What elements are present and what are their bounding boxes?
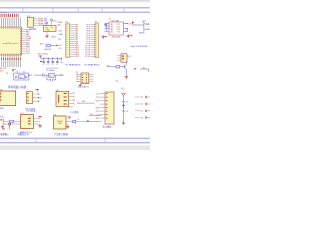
- module M1 value: [0, 108, 5, 110]
- net label top-left: [0, 12, 7, 14]
- svg-text:P1: P1: [66, 21, 68, 23]
- svg-text:78L05: 78L05: [51, 37, 58, 39]
- svg-text:24C02 AT24: 24C02 AT24: [78, 86, 90, 89]
- sheet top border line 2: [0, 11, 150, 13]
- net label U8 right: [77, 119, 79, 121]
- header J2 pins: [33, 19, 37, 26]
- header P1 designator: [66, 21, 68, 23]
- relay U5 label: [128, 56, 132, 58]
- sheet bottom border line 1: [0, 137, 150, 139]
- block U6 pins with no-connect: [69, 92, 75, 105]
- input connector bar: [3, 119, 5, 125]
- svg-text:P2: P2: [95, 21, 97, 23]
- sign text: [131, 45, 148, 48]
- wire Q1 vertical: [143, 22, 145, 32]
- svg-text:wbxxm: wbxxm: [0, 12, 7, 14]
- top border tick 3: [77, 8, 79, 13]
- top border tick 2: [52, 8, 54, 13]
- svg-text:32k: 32k: [19, 77, 22, 79]
- ground input: [1, 125, 4, 128]
- mcu U1 right pins: [20, 29, 25, 53]
- svg-text:U4 3485: U4 3485: [112, 21, 120, 23]
- svg-text:ESP: ESP: [0, 108, 5, 110]
- top border tick 4: [101, 8, 103, 13]
- driver U3 body: [109, 22, 123, 35]
- driver U3 designator: [112, 21, 120, 23]
- header P2 value: [85, 64, 101, 67]
- header P1 pin numbers: [65, 24, 68, 56]
- mcu U1 body: [0, 27, 22, 55]
- svg-text:D+: D+: [77, 119, 79, 121]
- svg-text:X1: X1: [6, 73, 8, 75]
- ground below U3 right: [127, 34, 133, 37]
- module U8 designator: [54, 115, 57, 117]
- test column wire: [123, 96, 125, 122]
- svg-text:stm8s105 weixin: stm8s105 weixin: [3, 42, 18, 45]
- header P4 value: [26, 108, 36, 110]
- mcu U1 top pins: [2, 25, 21, 27]
- svg-text:10K R9: 10K R9: [44, 49, 52, 51]
- svg-text:J: J: [28, 20, 29, 22]
- header J2 designator: [27, 16, 30, 18]
- module M1 designator: [0, 90, 4, 92]
- test point TP1: [122, 102, 129, 104]
- header P1 right net labels: [75, 24, 80, 58]
- power flag P4: [36, 89, 39, 91]
- capacitor C14: [16, 76, 17, 79]
- wire from R1: [50, 45, 57, 46]
- svg-text:C13: C13: [140, 117, 143, 119]
- block U6 value: [69, 106, 73, 108]
- svg-text:GND: GND: [95, 107, 100, 109]
- svg-text:Sign-IT-NODE42A: Sign-IT-NODE42A: [131, 45, 148, 48]
- svg-text:Y1 8MHz: Y1 8MHz: [46, 70, 54, 72]
- top border tick 5: [123, 8, 125, 13]
- mcu U1 bottom pins: [2, 55, 21, 57]
- section label power: [8, 85, 27, 89]
- svg-text:C10: C10: [140, 97, 143, 99]
- relay U5 body: [121, 54, 127, 62]
- resistor R3: [144, 28, 150, 30]
- capacitor column C10-C13: [135, 96, 150, 120]
- net label serial: [90, 114, 94, 116]
- wire stubs to mcu osc pins: [17, 71, 24, 74]
- driver U3 bottom label: [112, 36, 121, 38]
- svg-text:SM5100B: SM5100B: [112, 36, 121, 38]
- bottom gray band: [0, 146, 150, 151]
- svg-text:0.1: 0.1: [56, 64, 58, 66]
- svg-text:SCL: SCL: [59, 31, 63, 33]
- net label above test column: [121, 88, 124, 90]
- sheet background: [0, 0, 150, 150]
- svg-text:K1: K1: [147, 24, 149, 26]
- eeprom U7 pins: [77, 74, 94, 82]
- power port 3V3 above U2: [50, 19, 56, 23]
- svg-text:0.1: 0.1: [42, 64, 44, 66]
- ground below U3 left: [101, 35, 106, 38]
- crystal loop wires 32k: [14, 73, 29, 80]
- header P2 pins: [90, 25, 95, 57]
- transistor Q2 label: [116, 80, 119, 82]
- mcu U1 top inner pin numbers: [1, 28, 21, 29]
- svg-text:VCC: VCC: [96, 93, 101, 95]
- wire Q1 base: [133, 24, 144, 26]
- bottom label 3: [54, 132, 68, 136]
- header P2 body: [95, 23, 99, 57]
- power module P5 designator: [21, 113, 25, 115]
- svg-text:P2 HEADER16: P2 HEADER16: [85, 64, 101, 67]
- capacitor C6 series: [42, 74, 47, 77]
- svg-text:R10: R10: [0, 71, 3, 73]
- reset net label: [40, 44, 45, 46]
- wire serial top: [89, 115, 102, 117]
- wire net A: [77, 101, 94, 103]
- transistor Q2: [125, 62, 127, 69]
- bottom border tick 1: [35, 138, 37, 142]
- driver U3 top-left label: [109, 19, 111, 21]
- net label cap bank left: [40, 61, 42, 62]
- ground P5: [38, 124, 42, 127]
- cap bank value text: [46, 68, 59, 70]
- input red marks: [3, 128, 5, 129]
- power flag P5: [38, 117, 41, 119]
- driver U3 right pins: [123, 23, 127, 32]
- svg-text:VCC 104x4: VCC 104x4: [38, 53, 49, 55]
- svg-text:S8050: S8050: [139, 32, 144, 34]
- header P1 body: [66, 23, 70, 57]
- net label crystal left: [34, 75, 39, 77]
- top gray band: [0, 0, 150, 3]
- input wire bottom: [4, 123, 21, 125]
- eeprom U7 body: [81, 73, 89, 84]
- net flag below mcu: [12, 69, 16, 72]
- net label Q1 base: [142, 21, 146, 23]
- bottom label 1: [0, 132, 10, 136]
- svg-text:Q2: Q2: [116, 80, 119, 82]
- top border tick 1: [22, 8, 24, 13]
- resistor R1 body: [46, 44, 50, 47]
- capacitor C8 bottom: [51, 79, 53, 81]
- svg-text:0.1: 0.1: [51, 64, 53, 66]
- header J2 body: [27, 17, 33, 27]
- svg-text:PC15: PC15: [85, 56, 90, 58]
- bottom border tick 2: [104, 138, 106, 142]
- mcu U1 bottom net labels rotated: [1, 61, 21, 68]
- header P4 body: [26, 92, 32, 104]
- svg-text:DTR: DTR: [96, 111, 101, 113]
- power module P5 value: [20, 131, 33, 134]
- header P4 net label: [39, 98, 42, 100]
- mcu U1 bottom inner pin numbers: [1, 54, 21, 55]
- wire crystal left: [38, 74, 43, 76]
- regulator U2 label: [51, 37, 58, 39]
- net label below mcu: [0, 68, 6, 70]
- sheet top border line 1: [0, 7, 150, 9]
- junction test column: [122, 104, 125, 107]
- svg-text:单片机最小系统: 单片机最小系统: [8, 85, 27, 89]
- svg-text:RST: RST: [40, 44, 45, 46]
- power port flag: [8, 123, 10, 129]
- header P6 value: [103, 124, 113, 128]
- label above P5: [26, 109, 36, 113]
- header P6 body: [105, 92, 114, 124]
- wire crystal right: [56, 74, 64, 77]
- block U6 body: [56, 91, 69, 106]
- svg-text:IN2: IN2: [106, 65, 109, 67]
- regulator U2 body: [44, 26, 57, 32]
- svg-text:TXD: TXD: [96, 97, 100, 99]
- header P2 left net labels: [85, 24, 90, 58]
- svg-text:RXD: RXD: [96, 100, 101, 102]
- sheet bottom border line 2: [0, 142, 150, 144]
- bottom label 2: [18, 132, 30, 136]
- regulator U2 ground pin: [46, 32, 48, 35]
- svg-text:X2: X2: [62, 75, 64, 77]
- capacitor C15: [26, 76, 27, 79]
- cap bank title: [38, 53, 49, 55]
- eeprom U7 designator: [76, 72, 79, 74]
- header P1 value: [66, 64, 82, 67]
- svg-text:C12: C12: [140, 111, 143, 113]
- module U8 right pin 1: [66, 121, 73, 123]
- power flag cap bank: [39, 56, 42, 58]
- driver U3 right net label: [128, 24, 133, 26]
- header P1 left net labels: [58, 22, 64, 50]
- power module P5 body: [21, 115, 34, 129]
- svg-text:3V3: 3V3: [53, 21, 56, 23]
- svg-text:0.1: 0.1: [47, 64, 49, 66]
- transistor Q1 labels: [139, 32, 144, 34]
- power flag U8: [68, 117, 71, 119]
- module M1 body: [0, 91, 16, 106]
- ground test column: [122, 122, 125, 125]
- svg-text:ADC: ADC: [58, 23, 63, 26]
- junction node 32k: [28, 74, 32, 76]
- mcu U1 bottom pin numbers: [1, 58, 21, 61]
- net stub right mid: [134, 68, 136, 69]
- power flag Q1: [132, 22, 135, 25]
- net label right edge: [147, 24, 149, 26]
- crystal Y2 body: [49, 73, 55, 77]
- svg-text:C11: C11: [140, 104, 143, 106]
- wire right mid: [140, 69, 149, 72]
- driver U3 pin names: [110, 24, 120, 33]
- mcu U1 top net labels rotated: [1, 18, 21, 25]
- svg-text:5V0: 5V0: [121, 88, 124, 90]
- wire Q2 base: [108, 66, 125, 68]
- net label Q2 base: [106, 65, 109, 67]
- resistor R2: [144, 23, 150, 25]
- header P4 pins: [32, 93, 39, 101]
- resistor R4 on base: [116, 66, 120, 68]
- svg-text:4.7k: 4.7k: [69, 106, 73, 108]
- mcu U1 top pin numbers: [1, 14, 19, 18]
- input wire top: [4, 121, 21, 123]
- driver U3 left pins: [105, 23, 110, 31]
- svg-text:NET: NET: [82, 101, 85, 103]
- header P1 pins: [69, 25, 74, 57]
- svg-text:P1 HEADER16: P1 HEADER16: [66, 64, 82, 67]
- fuse F1: [10, 120, 14, 122]
- crystal Y2 designator: [46, 70, 54, 72]
- test point TP2: [122, 111, 129, 113]
- net label below mcu 2: [0, 71, 3, 73]
- header J2 pin labels: [38, 18, 48, 27]
- cap bank bus wire: [40, 57, 62, 59]
- power flag test column: [122, 93, 126, 96]
- capacitors C1-C4: [42, 58, 58, 66]
- header P2 pin numbers: [95, 24, 98, 56]
- ground below U7: [79, 84, 82, 87]
- relay U5 left pins: [117, 56, 121, 61]
- svg-text:OT4: OT4: [117, 31, 120, 33]
- net label right mid: [143, 67, 146, 69]
- header J2 value: [30, 29, 37, 31]
- regulator U2 output pin: [50, 22, 52, 25]
- resistor R5: [73, 120, 84, 122]
- resistor R1 value: [44, 49, 52, 51]
- svg-text:IN4: IN4: [110, 31, 113, 33]
- svg-text:IO2: IO2: [59, 48, 62, 50]
- power module P5 right pins: [34, 119, 41, 124]
- svg-text:PB15: PB15: [75, 56, 80, 58]
- eeprom U7 value: [78, 86, 90, 89]
- capacitor C5 right: [60, 58, 63, 64]
- regulator U2 input pin: [46, 22, 48, 25]
- svg-text:osc: osc: [30, 74, 33, 76]
- header P6 left net labels: [95, 93, 100, 120]
- crystal loop wires: [47, 75, 56, 80]
- capacitor C7 on U3 input: [104, 23, 106, 26]
- block U6 designator: [56, 90, 59, 92]
- svg-text:TX1: TX1: [58, 39, 61, 41]
- header P6 pins: [100, 94, 105, 119]
- svg-text:LED: LED: [142, 21, 146, 23]
- header P2 designator: [95, 21, 97, 23]
- net label X1: [6, 73, 8, 75]
- input net labels: [0, 116, 5, 120]
- wire Q2 emitter: [125, 69, 127, 75]
- module U8 body: [54, 116, 67, 129]
- label above U8: [70, 110, 79, 114]
- ground U8: [66, 125, 70, 128]
- mcu U1 right pin net labels: [26, 29, 32, 55]
- svg-text:RX1: RX1: [58, 45, 62, 47]
- svg-text:CON4: CON4: [30, 29, 37, 31]
- svg-text:10u: 10u: [60, 62, 63, 64]
- ground Q2 emitter: [125, 75, 129, 78]
- crystal Y3 body: [18, 75, 24, 79]
- ground below U2: [45, 34, 49, 37]
- svg-text:SWIM: SWIM: [38, 25, 44, 27]
- wire serial bottom: [84, 120, 102, 122]
